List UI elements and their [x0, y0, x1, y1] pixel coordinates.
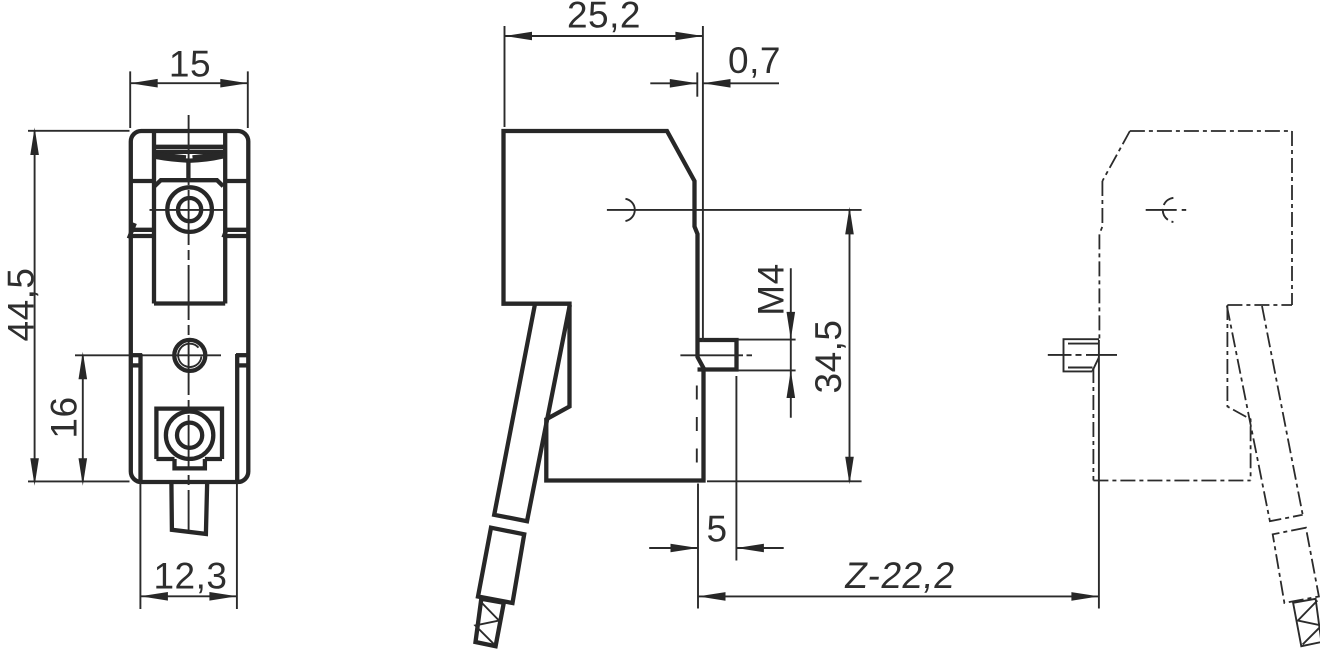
- phantom gland edge: [1227, 305, 1250, 481]
- phantom view body: [1048, 131, 1320, 646]
- phantom chamfer: [1102, 131, 1130, 181]
- phantom lower face: [1092, 368, 1094, 481]
- spring plate line 1: [154, 145, 225, 149]
- side slot left diagonal: [129, 223, 135, 238]
- phantom hole arc: [1163, 198, 1174, 222]
- phantom M4 stud: [1064, 339, 1100, 371]
- dim 44,5 arrow bottom: [30, 458, 39, 486]
- dim 5 line left: [649, 547, 698, 549]
- wall tick left lower: [131, 363, 142, 367]
- phantom step diagonal: [1092, 358, 1099, 372]
- phantom under edge: [1227, 304, 1292, 306]
- dim 5 arrow right: [736, 544, 764, 553]
- dim M4 extension lines: [738, 340, 796, 371]
- boss top chamfered edge: [155, 180, 224, 186]
- lower wall right: [235, 354, 239, 480]
- dim 0,7 line left: [650, 82, 697, 84]
- dim 5 line right: [736, 547, 783, 549]
- hidden edge dashed: [696, 371, 698, 479]
- hole center arc: [625, 199, 634, 221]
- housing outline front: [131, 131, 249, 482]
- wall tick left upper: [130, 353, 143, 357]
- dim 34,5 line: [849, 210, 851, 481]
- dim 12,3 line: [140, 595, 237, 597]
- mounting plane extension line: [1098, 340, 1100, 609]
- phantom M4 centerline: [1048, 354, 1117, 356]
- dim 34,5 arrow bottom: [845, 457, 854, 485]
- svg-text:16: 16: [44, 396, 85, 438]
- inner column left: [152, 132, 156, 304]
- svg-text:M4: M4: [750, 263, 791, 315]
- dim Z-22,2 line: [698, 595, 1099, 597]
- dim 44,5 extension lines: [28, 131, 130, 482]
- hole centerline side: [607, 209, 862, 211]
- bottom tab: [171, 481, 207, 534]
- shoulder line left: [132, 179, 155, 183]
- dim M4 line: [790, 268, 792, 417]
- dim M4 arrow lower: [787, 371, 796, 399]
- housing outline side: [504, 131, 704, 481]
- dim 0,7 arrow left: [670, 79, 698, 88]
- phantom cable zigzag: [1298, 601, 1320, 645]
- mounting hole horizontal centerline: [75, 354, 221, 356]
- M4 stud boss: [698, 340, 737, 370]
- side slot right lines: [225, 230, 249, 236]
- dim 15 extension lines: [130, 71, 248, 128]
- phantom bottom edge: [1093, 480, 1250, 482]
- dim 34,5 arrow top: [845, 207, 854, 235]
- dim 25,2 extension lines: [505, 26, 703, 342]
- cable break zigzag: [475, 601, 499, 645]
- svg-text:12,3: 12,3: [153, 556, 227, 597]
- dim M4 arrow upper: [787, 312, 796, 340]
- phantom top edge: [1130, 130, 1292, 132]
- top hole inner circle: [178, 198, 201, 221]
- terminal outer circle: [166, 412, 213, 459]
- dim 25,2 arrow left: [505, 32, 533, 41]
- bowtie blade: [155, 154, 224, 161]
- dim 5 arrow left: [671, 544, 699, 553]
- top hole outer circle: [167, 187, 212, 232]
- dim 34,5 bottom extension: [707, 480, 862, 482]
- svg-text:34,5: 34,5: [808, 319, 849, 393]
- wall tick right upper: [236, 353, 249, 357]
- spring plate line 2: [154, 150, 225, 154]
- phantom left edge upper: [1099, 181, 1102, 340]
- dim 12,3 arrow left: [140, 592, 168, 601]
- dim 44,5 arrow top: [30, 128, 39, 156]
- side slot left lines: [130, 230, 153, 236]
- dim 0,7 arrow right: [703, 79, 731, 88]
- lower wall left: [138, 354, 142, 480]
- phantom cable jacket segment: [1273, 528, 1319, 603]
- phantom right edge: [1291, 131, 1293, 305]
- side view body: [475, 131, 861, 646]
- dim 0,7 line right: [703, 82, 779, 84]
- mounting hole thread arc: [178, 344, 201, 367]
- dimensions: [1, 0, 1099, 609]
- front view body: [75, 115, 249, 534]
- boss bottom edge: [154, 301, 225, 305]
- dim 16 arrow bottom: [79, 458, 88, 486]
- plunger stem: [186, 162, 190, 181]
- dim 25,2 line: [505, 35, 703, 37]
- dim 0,7 extension tick: [696, 72, 698, 96]
- svg-text:44,5: 44,5: [1, 267, 42, 341]
- cable gland segment: [494, 305, 570, 522]
- side slot right diagonal: [224, 229, 227, 238]
- dim 25,2 arrow right: [675, 32, 703, 41]
- shoulder line right: [225, 179, 247, 183]
- dim 16 line: [82, 355, 84, 481]
- mounting hole outer circle: [174, 340, 205, 371]
- dim Z-22,2 text: [842, 554, 958, 596]
- M4 centerline: [680, 354, 752, 356]
- dim 44,5 line: [34, 131, 36, 482]
- terminal inner circle: [177, 423, 202, 448]
- dim Z-22,2 arrow right: [1071, 592, 1099, 601]
- wall tick right lower: [239, 363, 250, 367]
- inner column right: [223, 132, 227, 304]
- dim 5 extension lines: [698, 376, 736, 609]
- phantom cable left edge: [1227, 306, 1303, 521]
- dim 15 arrow right: [220, 79, 248, 88]
- dim 15 line: [130, 82, 248, 84]
- dim Z-22,2 arrow left: [698, 592, 726, 601]
- svg-text:5: 5: [706, 509, 727, 550]
- svg-text:Z-22,2: Z-22,2: [842, 554, 958, 596]
- dim 16 arrow top: [79, 352, 88, 380]
- dim 12,3 extension lines: [140, 482, 237, 610]
- vertical centerline front: [188, 115, 190, 531]
- dim 15 arrow left: [130, 79, 158, 88]
- phantom cable end segment: [1293, 599, 1320, 646]
- cable end segment: [476, 599, 504, 646]
- dim 12,3 arrow right: [209, 592, 237, 601]
- svg-text:0,7: 0,7: [728, 40, 781, 81]
- svg-text:25,2: 25,2: [567, 0, 641, 36]
- cable jacket segment: [478, 528, 524, 603]
- phantom hole centerline: [1146, 209, 1187, 211]
- terminal boss outline: [156, 409, 222, 469]
- top hole horizontal centerline: [150, 209, 227, 211]
- phantom M4 stud thread lines: [1068, 344, 1099, 368]
- svg-text:15: 15: [169, 44, 211, 85]
